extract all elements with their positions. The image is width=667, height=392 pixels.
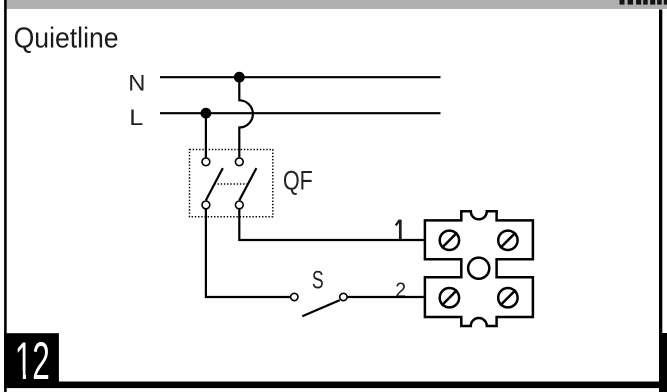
left page border bbox=[4, 0, 7, 392]
svg-text:2: 2 bbox=[395, 279, 406, 302]
svg-text:S: S bbox=[312, 265, 324, 294]
QF pole 1 blade bbox=[206, 168, 223, 200]
QF mechanical link (dashed) bbox=[214, 183, 248, 185]
QF pole 2 top terminal bbox=[235, 158, 243, 166]
screw terminal 1 left bbox=[440, 231, 459, 250]
wire from L junction down bbox=[205, 113, 207, 157]
svg-text:QF: QF bbox=[283, 166, 313, 196]
switch S right terminal bbox=[340, 293, 347, 300]
wire L line bbox=[160, 112, 441, 114]
wire from N junction down with hop over L bbox=[239, 77, 253, 157]
page number box bbox=[4, 333, 59, 382]
junction dot on L bbox=[201, 108, 212, 119]
QF pole 1 top terminal bbox=[202, 158, 210, 166]
screw terminal 2 right bbox=[498, 288, 517, 307]
gray header band bbox=[7, 0, 667, 9]
svg-text:N: N bbox=[128, 70, 145, 95]
cropped running-header text stubs top right bbox=[620, 0, 667, 5]
right page border bbox=[659, 10, 662, 392]
wire QF pole1 down to switch S bbox=[206, 210, 290, 298]
wire S to terminal 2 bbox=[348, 296, 425, 298]
svg-text:L: L bbox=[129, 106, 143, 130]
terminal block outline bbox=[425, 211, 533, 326]
right edge tab mark bbox=[659, 333, 667, 392]
screw terminal 1 right bbox=[498, 231, 517, 250]
bottom bar bbox=[4, 382, 667, 389]
breaker QF dashed box bbox=[190, 150, 273, 217]
QF pole 2 bottom terminal bbox=[235, 201, 243, 209]
switch S left terminal bbox=[291, 293, 298, 300]
junction dot on N bbox=[234, 72, 245, 83]
svg-text:12: 12 bbox=[15, 333, 50, 391]
wire QF pole2 to terminal 1 bbox=[239, 210, 424, 241]
wire N line bbox=[160, 76, 441, 78]
label 1 bbox=[396, 220, 401, 240]
terminal block center hole bbox=[468, 258, 489, 279]
screw terminal 2 left bbox=[440, 288, 459, 307]
QF pole 1 bottom terminal bbox=[202, 201, 210, 209]
QF pole 2 blade bbox=[239, 168, 256, 200]
switch S blade bbox=[302, 300, 340, 316]
svg-text:Quietline: Quietline bbox=[14, 21, 119, 53]
